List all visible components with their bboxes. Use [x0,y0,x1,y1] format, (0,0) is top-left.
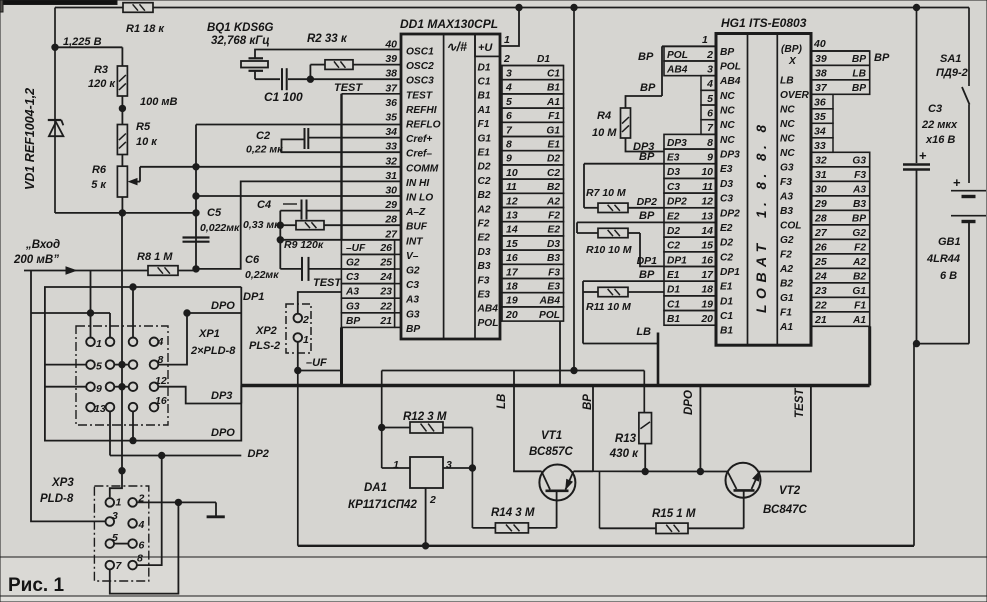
svg-text:5: 5 [707,93,713,105]
svg-text:BP: BP [346,316,360,327]
svg-text:ПД9-2: ПД9-2 [936,67,968,79]
svg-text:F1: F1 [854,301,866,312]
svg-text:16: 16 [701,254,713,266]
wire DA1 pin1 column from y371 line [381,371,383,469]
svg-text:C6: C6 [245,254,260,266]
svg-text:OVER: OVER [780,90,810,101]
svg-text:+: + [953,175,961,190]
svg-text:BP: BP [638,51,654,63]
svg-text:4: 4 [505,82,512,94]
svg-text:0,22 мк: 0,22 мк [246,144,283,156]
svg-text:DP3: DP3 [667,138,687,149]
wire R7 to DP2 box [584,207,598,209]
wire bottom rail [298,545,914,547]
svg-text:8: 8 [707,137,713,149]
svg-text:33: 33 [385,141,397,153]
svg-text:OSC1: OSC1 [406,47,434,58]
wire E2 row to R10 loop [577,221,664,223]
svg-text:10: 10 [506,167,518,179]
svg-text:F1: F1 [478,119,490,130]
svg-text:AB4: AB4 [477,304,499,315]
wire XP2 node down to bottom box corner [297,371,299,546]
svg-text:2: 2 [302,314,309,326]
svg-text:430 к: 430 к [609,448,639,460]
wire BP drop to VT1 emitter [592,386,594,472]
svg-text:TEST: TEST [334,82,363,94]
DD1 pin 1 +U wire [500,8,519,47]
wire BUF pin28 through R9 [324,224,401,226]
wire Cref+ pin34 to C2 [308,137,401,139]
svg-text:D2: D2 [478,162,491,173]
wire C3 bottom to junction [916,170,918,344]
svg-text:X: X [788,56,797,67]
wire DA1 pin3 [443,467,472,469]
wire R12 leads [382,427,410,429]
svg-text:A1: A1 [546,97,560,108]
svg-text:NC: NC [780,104,795,115]
svg-text:C1: C1 [720,311,733,322]
DD1 right net-label ladder pins 3-20 [500,66,564,322]
svg-text:19: 19 [701,298,713,310]
svg-text:BP: BP [874,52,890,64]
capacitor C2 [304,128,306,149]
svg-text:C2: C2 [256,130,270,142]
junction battery minus node [913,340,919,346]
transistor Q2 VT2 BC847C [726,463,761,498]
svg-text:31: 31 [815,169,827,181]
svg-text:COL: COL [780,220,802,231]
svg-text:C4: C4 [257,199,271,211]
wire XP2 pin2 to TEST vertical [298,292,342,314]
svg-text:30: 30 [385,185,397,197]
svg-text:E2: E2 [548,225,561,236]
wire ladder-left vertical continues to bottom rail [340,327,343,385]
svg-text:1: 1 [116,497,122,509]
svg-text:6: 6 [139,540,145,552]
svg-text:9: 9 [506,153,512,165]
svg-text:R1 18 к: R1 18 к [126,23,165,35]
svg-text:E3: E3 [720,164,733,175]
svg-text:39: 39 [815,53,827,65]
svg-text:R7 10 М: R7 10 М [586,187,626,199]
svg-text:DP1: DP1 [243,291,264,303]
svg-text:16: 16 [506,252,518,264]
resistor R5 [117,125,127,155]
resistor R8 [148,266,178,276]
svg-text:33: 33 [814,140,826,152]
svg-text:G2: G2 [780,235,794,246]
svg-text:R12 3 М: R12 3 М [403,411,447,423]
svg-text:23: 23 [814,285,827,297]
svg-text:IN LO: IN LO [406,193,433,204]
svg-text:G2: G2 [406,266,420,277]
svg-text:POL: POL [667,50,688,61]
svg-text:ВС857С: ВС857С [529,446,574,458]
svg-text:16: 16 [155,395,167,407]
junction R9/C4 column [277,222,283,228]
svg-text:D3: D3 [720,179,733,190]
svg-text:C5: C5 [207,207,222,219]
wire BP thick rail [241,384,869,387]
svg-text:34: 34 [814,126,826,138]
resistor R14 [495,523,528,533]
wire OSC1 pin40 to crystal [255,50,401,58]
capacitor C3 polarized [903,163,930,165]
svg-text:9: 9 [707,152,713,164]
svg-text:AB4: AB4 [719,76,741,87]
HG1 right NC stubs 36-33 [811,94,833,152]
svg-text:24: 24 [814,271,827,283]
XP3 pin numbers [112,493,145,573]
svg-text:E1: E1 [548,140,561,151]
svg-text:A3: A3 [345,287,359,298]
svg-text:18: 18 [701,284,713,296]
svg-text:E2: E2 [478,233,491,244]
resistor R1 [123,3,153,13]
svg-text:D1: D1 [667,285,680,296]
resistor R4 [621,108,631,138]
svg-text:25: 25 [814,256,827,268]
svg-text:DP2: DP2 [667,197,687,208]
wire DPO drop [699,386,701,472]
op-amp U1 DD1 MAX130CPL body [401,34,500,339]
svg-text:4: 4 [157,336,164,348]
svg-text:1,225 В: 1,225 В [63,36,102,48]
wire R2 to OSC2 pin39 [353,64,401,66]
svg-text:Cref+: Cref+ [406,134,432,145]
wire C3 branch from rail [916,8,918,164]
wire XP3 pin2 loop to pin7 [110,502,179,593]
svg-text:19: 19 [506,295,518,307]
connector XP1 outer box [45,287,241,441]
svg-text:26: 26 [379,242,392,254]
wire R5 to R6 [121,155,123,166]
connector XP2 PLS-2 [286,304,311,353]
svg-text:BP: BP [852,54,866,65]
wire IN LO pin30 [196,195,401,197]
svg-text:15: 15 [506,238,518,250]
svg-text:E3: E3 [548,282,561,293]
wire DP3 tap from pin12 [158,387,241,404]
svg-text:32,768 кГц: 32,768 кГц [211,35,270,47]
svg-text:B3: B3 [853,199,866,210]
svg-text:2×PLD-8: 2×PLD-8 [190,345,236,357]
svg-text:LB: LB [852,69,866,80]
svg-text:POL: POL [478,318,499,329]
resistor R7 [598,203,628,212]
svg-text:F2: F2 [478,219,490,230]
svg-text:21: 21 [379,315,392,327]
svg-text:OSC3: OSC3 [406,76,434,87]
wire R11 loop [583,291,598,293]
wire DP2 below XP1 [110,455,241,457]
junction top rail to DD1 pin1 [516,4,522,10]
svg-text:14: 14 [506,224,518,236]
junction top rail to bottom section [571,4,577,10]
svg-text:17: 17 [701,269,714,281]
svg-text:TEST: TEST [406,90,433,101]
svg-text:XP3: XP3 [51,477,74,489]
resistor R11 [598,287,628,296]
svg-text:G3: G3 [852,156,866,167]
wire DA1 pin2 to bottom rail [425,488,427,546]
wire left vertical from rail to 1.225V node [54,8,56,214]
svg-text:18: 18 [506,281,518,293]
svg-text:10 М: 10 М [592,127,617,139]
svg-text:6 В: 6 В [940,270,957,282]
svg-text:DP2: DP2 [248,448,269,460]
svg-text:G3: G3 [780,162,794,173]
svg-text:A2: A2 [477,204,491,215]
svg-text:TEST: TEST [794,388,806,418]
svg-text:39: 39 [385,53,397,65]
wire DPO tap from pin8 [158,313,241,365]
svg-text:XP2: XP2 [255,325,277,337]
svg-text:NC: NC [720,135,735,146]
svg-text:9: 9 [96,383,102,395]
svg-text:ВС847С: ВС847С [763,504,808,516]
svg-text:15: 15 [701,240,713,252]
svg-text:5: 5 [96,361,102,373]
svg-text:D2: D2 [547,154,560,165]
connector XP3 dash-dot outline [94,486,148,581]
svg-text:C3: C3 [406,280,419,291]
svg-text:29: 29 [814,198,827,210]
wire C4 left to junction column [280,210,301,212]
svg-text:E3: E3 [667,153,680,164]
wire VD1 anode rail y=213 [55,212,196,214]
svg-text:A1: A1 [477,105,491,116]
svg-text:17: 17 [506,266,519,278]
svg-text:11: 11 [702,181,713,193]
junction INT on column [277,237,283,243]
wire BP vertical left of HG1 [661,46,663,96]
svg-text:E2: E2 [720,223,733,234]
svg-text:22: 22 [379,300,392,312]
svg-text:A2: A2 [779,264,793,275]
svg-text:F2: F2 [854,243,866,254]
svg-text:100 мВ: 100 мВ [140,96,178,108]
svg-text:–UF: –UF [306,357,327,369]
DD1 +U supply cell [475,34,500,56]
svg-text:DP1: DP1 [720,267,740,278]
svg-text:DP2: DP2 [637,196,658,208]
wire R3 to 100mV node [121,96,123,124]
svg-text:F3: F3 [780,177,792,188]
svg-text:INT: INT [406,236,423,247]
DD1 left pin wire stubs 36-28 [0,0,1,1]
svg-text:36: 36 [814,97,826,109]
svg-text:23: 23 [379,286,392,298]
wire A-Z pin29 to C4 [307,210,402,212]
svg-text:AB4: AB4 [539,296,561,307]
HG1 right net-label ladder upper [811,51,870,94]
svg-text:B2: B2 [780,278,793,289]
wire TEST drop to VT2 emitter [760,386,811,472]
wire C6 to TEST vertical [280,268,302,270]
svg-text:1: 1 [96,338,102,350]
HG1 left NC stubs pins 4-7 [701,76,716,135]
svg-text:C1: C1 [547,69,560,80]
svg-text:B1: B1 [667,314,680,325]
wire R4 top to BP [626,96,663,108]
wire R6 bottom to common node [121,197,123,213]
svg-text:G2: G2 [852,228,866,239]
svg-text:35: 35 [385,112,397,124]
svg-text:AB4: AB4 [666,64,688,75]
svg-text:D2: D2 [667,226,680,237]
svg-text:R13: R13 [615,433,637,445]
svg-text:F3: F3 [854,170,866,181]
svg-text:2: 2 [429,494,436,506]
svg-text:E3: E3 [478,290,491,301]
svg-text:BP: BP [640,82,656,94]
junction -UF node [295,367,301,373]
wire IN HI pin31 [196,181,401,269]
svg-text:B3: B3 [547,253,560,264]
svg-text:D3: D3 [667,167,680,178]
svg-text:+U: +U [478,42,493,54]
svg-text:F1: F1 [780,307,792,318]
resistor R15 [656,523,688,533]
svg-text:POL: POL [720,61,741,72]
svg-text:32: 32 [815,155,827,167]
svg-text:C1: C1 [667,299,680,310]
junction OSC3/R2 [307,76,313,82]
svg-text:C3: C3 [720,194,733,205]
wire COMM pin32 [140,166,401,168]
XP1 pin circles grid [86,338,158,412]
svg-text:8: 8 [137,553,143,565]
wire C1 to OSC3 pin38 [288,78,401,80]
svg-text:BP: BP [406,324,420,335]
svg-text:IN HI: IN HI [406,178,429,189]
XP1 pin number labels [94,336,167,415]
capacitor C1 [281,68,283,90]
svg-text:D1: D1 [478,62,491,73]
svg-text:D1: D1 [720,296,733,307]
wire TEST pin37 down the long vertical [342,93,402,95]
capacitor C5 [183,236,210,238]
XP3 pin circles [106,498,137,569]
svg-text:1: 1 [702,34,708,46]
svg-text:GB1: GB1 [938,236,961,248]
wire R2 to junction [309,65,311,80]
svg-text:LOBAT: LOBAT [753,238,769,313]
svg-text:C2: C2 [720,252,733,263]
svg-text:R15 1 М: R15 1 М [652,508,696,520]
wire REFLO to C5 column [196,124,401,126]
wire R8 left down to XP1 [90,271,92,338]
R6 wiper arrow to COMM wire [129,179,137,185]
svg-text:V–: V– [406,251,419,262]
svg-text:BP: BP [639,269,655,281]
svg-text:13: 13 [506,210,518,222]
svg-text:30: 30 [815,184,827,196]
svg-text:DPO: DPO [683,390,695,415]
svg-text:A2: A2 [852,257,866,268]
svg-text:NC: NC [720,106,735,117]
svg-text:B1: B1 [478,91,491,102]
svg-text:E1: E1 [478,148,491,159]
svg-text:4: 4 [138,519,145,531]
svg-text:VT1: VT1 [541,430,562,442]
svg-text:0,22мк: 0,22мк [245,269,279,281]
wire +U top rail [55,7,123,9]
wire bottom rail up to battery junction [913,344,915,546]
svg-text:R4: R4 [597,110,611,122]
svg-text:0,33 мк: 0,33 мк [243,219,280,231]
svg-text:G1: G1 [780,293,794,304]
svg-text:20: 20 [700,313,713,325]
input arrow on wire [24,270,148,272]
svg-text:2: 2 [706,49,713,61]
svg-text:COMM: COMM [406,163,439,174]
resistor R9 [296,221,324,230]
svg-text:BUF: BUF [406,222,428,233]
svg-text:REFHI: REFHI [406,105,437,116]
node 1.225 V [52,44,58,50]
svg-text:LB: LB [780,75,794,86]
svg-text:1: 1 [303,334,309,346]
junction C5/R8/IN-HI node [193,266,199,272]
resistor R12 [410,422,443,433]
wire R14 to VT1 base [472,527,495,529]
svg-text:C2: C2 [547,168,560,179]
svg-text:13: 13 [94,403,106,415]
svg-text:B1: B1 [720,326,733,337]
connector XP1 dash-dot outline [76,326,168,425]
svg-text:G1: G1 [478,133,492,144]
wire switch to battery [968,105,970,184]
svg-text:DA1: DA1 [364,482,387,494]
wire inner top line y371 [382,370,645,372]
diode VD1 REF1004-1.2 [48,119,62,121]
crystal BQ1 [249,57,264,59]
svg-text:G1: G1 [546,125,560,136]
scan light band bottom [0,557,987,602]
DD1 left net-label ladder pins 26-21 [341,240,401,328]
svg-text:BP: BP [852,214,866,225]
svg-text:C3: C3 [346,272,359,283]
svg-text:REFLO: REFLO [406,120,441,131]
svg-text:R9 120к: R9 120к [284,239,324,251]
wire R15 column [599,472,601,529]
wire rail-drop vertical from top rail to bottom box [573,8,575,371]
wire R13 bottom [644,444,646,472]
svg-text:120 к: 120 к [88,78,116,90]
svg-text:SA1: SA1 [940,53,961,65]
resistor R10 [598,228,628,237]
junction top rail to C3 [913,4,919,10]
svg-text:35: 35 [814,111,826,123]
junction COMM on C5 column [193,164,199,170]
junction input wire to XP1 col3 [130,284,136,290]
svg-text:R6: R6 [92,164,107,176]
HG1 left net-label ladder [664,46,716,325]
svg-text:C1: C1 [478,77,491,88]
svg-text:DD1 MAX130CPL: DD1 MAX130CPL [400,17,498,31]
svg-text:A–Z: A–Z [405,207,426,218]
svg-text:VT2: VT2 [779,485,801,497]
resistor R13 [639,413,652,444]
wire XP3 pin5-pin6 jumper [114,543,129,545]
wire E1 row to R11 loop [583,280,664,282]
svg-text:BQ1 KDS6G: BQ1 KDS6G [207,22,274,34]
wire R15 leads [600,527,657,529]
svg-text:„Вход: „Вход [25,239,60,251]
svg-text:6: 6 [707,108,713,120]
